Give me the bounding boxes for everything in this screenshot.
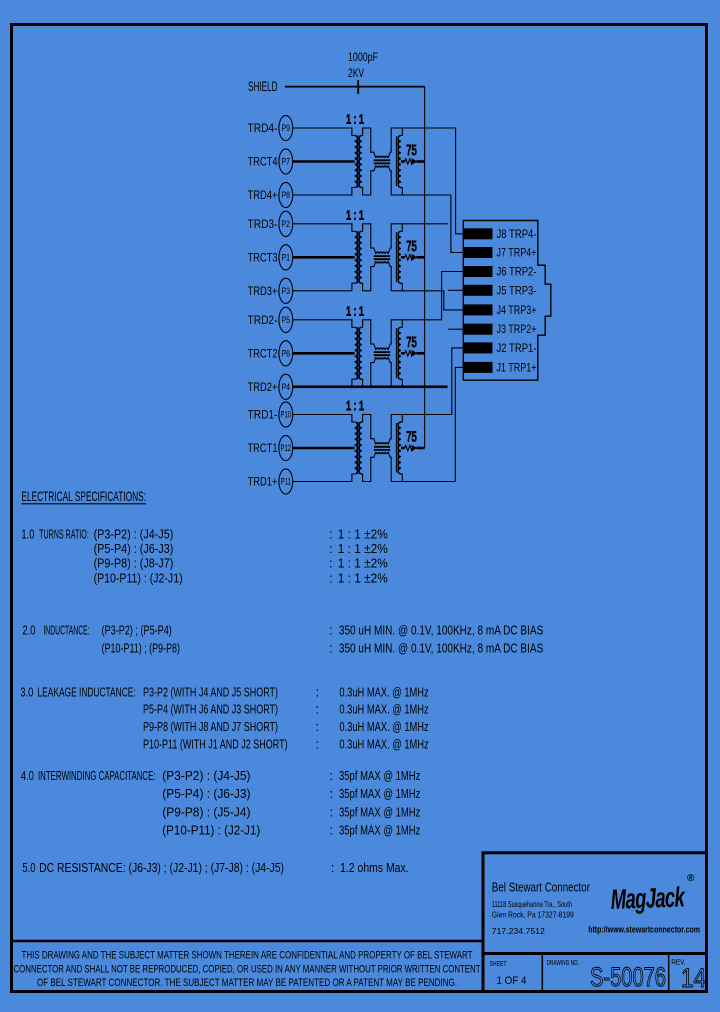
svg-text:1.2 ohms Max.: 1.2 ohms Max. <box>340 860 409 875</box>
svg-text::: : <box>329 623 333 638</box>
connector pin J4 (TRP3+) <box>464 304 493 315</box>
svg-text:1 : 1 ±2%: 1 : 1 ±2% <box>338 527 388 542</box>
connector pin J6 (TRP2-) <box>464 266 493 277</box>
svg-text:350 uH MIN. @ 0.1V, 100KHz, 8: 350 uH MIN. @ 0.1V, 100KHz, 8 mA DC BIAS <box>339 640 544 655</box>
svg-text:J7 TRP4+: J7 TRP4+ <box>497 248 537 260</box>
svg-text:P11: P11 <box>281 477 292 488</box>
svg-text:(P9-P8) : (J8-J7): (P9-P8) : (J8-J7) <box>94 556 174 571</box>
svg-text::: : <box>330 786 334 801</box>
svg-text:(P10-P11) : (J2-J1): (P10-P11) : (J2-J1) <box>162 823 260 838</box>
wire T4 secondary bottom to J7 (TRP4+) <box>402 195 463 253</box>
pin P8 circle <box>279 182 293 207</box>
connector pin J2 (TRP1-) <box>464 342 493 353</box>
wire stub J5 (TRP3-) <box>448 289 463 291</box>
wire T3 secondary top (TRP3-) <box>402 223 448 225</box>
svg-text:MagJack: MagJack <box>610 883 687 916</box>
connector pin J1 (TRP1+) <box>464 362 493 373</box>
svg-text:0.3uH MAX. @ 1MHz: 0.3uH MAX. @ 1MHz <box>339 737 428 752</box>
svg-text::: : <box>329 541 333 556</box>
svg-text:(P10-P11) : (J2-J1): (P10-P11) : (J2-J1) <box>94 570 183 585</box>
svg-text:TRD4-: TRD4- <box>248 121 278 135</box>
transformer T2 1:1 with common-mode choke <box>293 303 425 387</box>
svg-text:INDUCTANCE:: INDUCTANCE: <box>43 623 89 638</box>
svg-text:SHEET: SHEET <box>490 961 508 968</box>
svg-text:DC RESISTANCE: (J6-J3) ; (J2-J: DC RESISTANCE: (J6-J3) ; (J2-J1) ; (J7-J… <box>39 860 284 875</box>
pin P2 circle <box>279 211 293 236</box>
wire T1 secondary top to J2 (TRP1-) <box>402 348 463 415</box>
svg-text:(P3-P2) : (J4-J5): (P3-P2) : (J4-J5) <box>94 527 174 542</box>
svg-text:ELECTRICAL SPECIFICATIONS:: ELECTRICAL SPECIFICATIONS: <box>21 488 146 504</box>
title block box <box>483 853 707 992</box>
svg-text:Glen Rock, Pa 17327-8199: Glen Rock, Pa 17327-8199 <box>492 910 574 920</box>
pin P7 circle <box>279 149 293 174</box>
svg-text:14: 14 <box>681 963 706 993</box>
svg-text:0.3uH MAX. @ 1MHz: 0.3uH MAX. @ 1MHz <box>339 702 428 717</box>
svg-text:P9: P9 <box>282 123 291 134</box>
svg-text:P5: P5 <box>282 315 291 326</box>
svg-text:CONNECTOR AND SHALL NOT BE REP: CONNECTOR AND SHALL NOT BE REPRODUCED, C… <box>14 964 481 976</box>
svg-text:717.234.7512: 717.234.7512 <box>492 926 545 936</box>
svg-text:(P5-P4) : (J6-J3): (P5-P4) : (J6-J3) <box>94 541 174 556</box>
pin P6 circle <box>279 341 293 366</box>
svg-text:J6 TRP2-: J6 TRP2- <box>497 267 537 279</box>
wire TRCT3 center tap <box>293 256 355 259</box>
svg-text::: : <box>316 702 320 717</box>
svg-text:http://www.stewartconnector.co: http://www.stewartconnector.com <box>588 925 700 935</box>
svg-text:P7: P7 <box>282 157 291 168</box>
wire trunk common rail for 75-ohm resistors <box>424 87 426 448</box>
svg-text:TRD2-: TRD2- <box>248 313 278 327</box>
svg-text:LEAKAGE INDUCTANCE:: LEAKAGE INDUCTANCE: <box>38 685 136 700</box>
svg-text:TRD1+: TRD1+ <box>248 475 278 489</box>
wire T2 secondary top to J6 (TRP2-) <box>402 272 463 320</box>
svg-text::: : <box>329 556 333 571</box>
svg-text:TRCT1: TRCT1 <box>248 441 278 455</box>
svg-text:4.0: 4.0 <box>21 768 34 783</box>
connector pin J8 (TRP4-) <box>464 228 493 239</box>
svg-text:J3 TRP2+: J3 TRP2+ <box>497 324 537 336</box>
svg-text:0.3uH MAX. @ 1MHz: 0.3uH MAX. @ 1MHz <box>339 719 428 734</box>
svg-text:(P10-P11) ; (P9-P8): (P10-P11) ; (P9-P8) <box>102 640 180 655</box>
wire T4 secondary top to J8 (TRP4-) <box>402 128 463 234</box>
svg-text:0.3uH MAX. @ 1MHz: 0.3uH MAX. @ 1MHz <box>339 685 428 700</box>
transformer T4 1:1 with common-mode choke <box>293 112 425 196</box>
svg-text:1 : 1 ±2%: 1 : 1 ±2% <box>338 541 388 556</box>
svg-text:TRD1-: TRD1- <box>248 408 278 422</box>
wire T1 secondary bottom to J1 (TRP1+) <box>402 367 463 481</box>
transformer T1 1:1 with common-mode choke <box>293 398 425 482</box>
pin P12 circle <box>279 435 293 460</box>
svg-text:35pf MAX @ 1MHz: 35pf MAX @ 1MHz <box>339 768 420 783</box>
svg-text:1000pF: 1000pF <box>348 50 378 64</box>
svg-text:5.0: 5.0 <box>22 860 35 875</box>
svg-text:P4: P4 <box>282 382 291 393</box>
svg-text::: : <box>330 823 334 838</box>
svg-text::: : <box>330 804 334 819</box>
svg-text:(P3-P2) : (J4-J5): (P3-P2) : (J4-J5) <box>162 768 250 783</box>
pin P10 circle <box>279 402 293 427</box>
svg-text:P2: P2 <box>282 219 291 230</box>
wire TRCT4 center tap <box>293 160 355 163</box>
svg-text::: : <box>316 737 320 752</box>
pin P9 circle <box>279 115 293 140</box>
pin P11 circle <box>279 469 293 494</box>
svg-text:TRCT3: TRCT3 <box>248 250 278 264</box>
svg-text:1.0: 1.0 <box>21 527 34 542</box>
svg-text:TRCT4: TRCT4 <box>248 155 278 169</box>
svg-text:TRCT2: TRCT2 <box>248 346 278 360</box>
pin P3 circle <box>279 278 293 303</box>
svg-text:1 OF 4: 1 OF 4 <box>497 975 527 987</box>
svg-text:P10: P10 <box>281 410 292 421</box>
svg-text:TRD3-: TRD3- <box>248 217 278 231</box>
svg-text:SHIELD: SHIELD <box>248 78 278 94</box>
pin P5 circle <box>279 307 293 332</box>
svg-text:(P3-P2) ; (P5-P4): (P3-P2) ; (P5-P4) <box>102 623 172 638</box>
svg-text:3.0: 3.0 <box>20 685 33 700</box>
confidential note box <box>13 941 483 992</box>
capacitor C1 plate <box>357 80 359 94</box>
svg-text:(P5-P4) : (J6-J3): (P5-P4) : (J6-J3) <box>162 786 250 801</box>
svg-text::: : <box>329 570 333 585</box>
svg-text:11118 Susquehanna Tra., South: 11118 Susquehanna Tra., South <box>492 899 572 909</box>
connector pin J3 (TRP2+) <box>464 324 493 335</box>
svg-text:35pf MAX @ 1MHz: 35pf MAX @ 1MHz <box>339 804 420 819</box>
svg-text:DRAWING NO.: DRAWING NO. <box>547 960 579 967</box>
connector pin J7 (TRP4+) <box>464 247 493 258</box>
svg-text:TRD4+: TRD4+ <box>248 188 278 202</box>
svg-text::: : <box>329 640 333 655</box>
svg-text:P9-P8 (WITH J8 AND J7 SHORT): P9-P8 (WITH J8 AND J7 SHORT) <box>143 719 278 734</box>
svg-text:P8: P8 <box>282 190 291 201</box>
svg-text:2KV: 2KV <box>348 66 364 80</box>
svg-text:J2 TRP1-: J2 TRP1- <box>497 343 537 355</box>
svg-text:TRD3+: TRD3+ <box>248 284 278 298</box>
transformer T3 1:1 with common-mode choke <box>293 207 425 291</box>
svg-text:35pf MAX @ 1MHz: 35pf MAX @ 1MHz <box>339 786 420 801</box>
svg-text:S-50076: S-50076 <box>590 962 666 992</box>
pin P1 circle <box>279 245 293 270</box>
svg-text::: : <box>330 768 334 783</box>
svg-text:1 : 1 ±2%: 1 : 1 ±2% <box>338 556 388 571</box>
wire stub J3 (TRP2+) <box>448 328 463 330</box>
svg-text:2.0: 2.0 <box>23 623 36 638</box>
wire T3 secondary bottom to J4 (TRP3+) <box>402 291 463 310</box>
svg-text::: : <box>316 719 320 734</box>
svg-text::: : <box>331 860 335 875</box>
wire TRD2+ thick rail <box>293 385 448 388</box>
svg-text:J4 TRP3+: J4 TRP3+ <box>497 305 537 317</box>
svg-text:®: ® <box>687 873 695 884</box>
pin P4 circle <box>279 374 293 399</box>
connector pin J5 (TRP3-) <box>464 285 493 296</box>
svg-text:350 uH MIN. @ 0.1V, 100KHz, 8: 350 uH MIN. @ 0.1V, 100KHz, 8 mA DC BIAS <box>339 623 544 638</box>
svg-text::: : <box>316 685 320 700</box>
connector jack outline <box>463 221 551 381</box>
svg-text:1 : 1 ±2%: 1 : 1 ±2% <box>338 570 388 585</box>
svg-text:INTERWINDING CAPACITANCE:: INTERWINDING CAPACITANCE: <box>38 768 156 783</box>
wire TRCT1 center tap <box>293 447 355 450</box>
wire SHIELD to trunk <box>285 86 425 88</box>
svg-text:(P9-P8) : (J5-J4): (P9-P8) : (J5-J4) <box>162 804 250 819</box>
svg-text:35pf MAX @ 1MHz: 35pf MAX @ 1MHz <box>339 823 420 838</box>
wire TRCT2 center tap <box>293 352 355 355</box>
svg-text:Bel Stewart Connector: Bel Stewart Connector <box>492 880 591 895</box>
svg-text:P3-P2 (WITH J4 AND J5 SHORT): P3-P2 (WITH J4 AND J5 SHORT) <box>143 685 278 700</box>
svg-text:TRD2+: TRD2+ <box>248 380 278 394</box>
svg-text:THIS DRAWING AND THE SUBJECT M: THIS DRAWING AND THE SUBJECT MATTER SHOW… <box>22 950 473 962</box>
svg-text:P3: P3 <box>282 286 291 297</box>
svg-text:OF BEL STEWART CONNECTOR. THE: OF BEL STEWART CONNECTOR. THE SUBJECT MA… <box>37 977 457 989</box>
svg-text:P5-P4 (WITH J6 AND J3 SHORT): P5-P4 (WITH J6 AND J3 SHORT) <box>143 702 278 717</box>
svg-text:TURNS RATIO:: TURNS RATIO: <box>39 527 89 542</box>
svg-text:J8 TRP4-: J8 TRP4- <box>497 229 537 241</box>
svg-text::: : <box>329 527 333 542</box>
svg-text:P10-P11 (WITH J1 AND J2 SHORT): P10-P11 (WITH J1 AND J2 SHORT) <box>143 737 288 752</box>
svg-text:P1: P1 <box>282 252 291 263</box>
svg-text:J5 TRP3-: J5 TRP3- <box>497 285 537 297</box>
svg-text:J1 TRP1+: J1 TRP1+ <box>497 362 537 374</box>
svg-text:P6: P6 <box>282 348 291 359</box>
svg-text:P12: P12 <box>281 443 292 454</box>
